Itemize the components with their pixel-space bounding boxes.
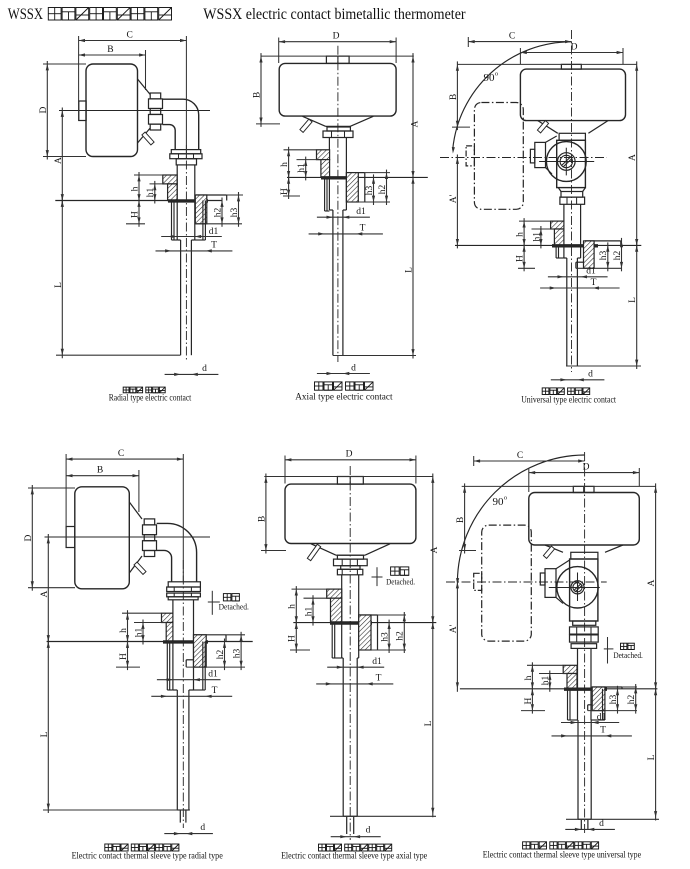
thermal sleeve tube [342, 658, 344, 816]
lower thread bushing (hatched) [592, 687, 605, 711]
union hex nut (top) [334, 559, 368, 566]
detach leader line [376, 567, 378, 586]
svg-text:H: H [288, 635, 298, 642]
svg-text:d: d [200, 823, 205, 833]
detachable union ring 2 (hex) [167, 587, 201, 592]
dimension D [520, 52, 623, 54]
dimension D [28, 487, 75, 489]
svg-text:h1: h1 [541, 676, 551, 686]
lower thread bushing (hatched) [346, 173, 358, 202]
svg-text:A: A [647, 579, 657, 586]
dimension h1 [297, 159, 321, 161]
dial bottom cone right [365, 544, 390, 555]
adjusting pin [300, 119, 312, 132]
dial phantom rotated (dash-dot) [474, 103, 523, 210]
dimension A [655, 483, 657, 691]
dimension B [464, 483, 466, 553]
dimension B [66, 475, 139, 477]
cone base line [336, 554, 365, 556]
label detach Chinese [223, 594, 231, 601]
caption Chinese: thermal sleeve universal type [523, 842, 530, 849]
outlet hex nut [323, 131, 353, 138]
dimension h1 [304, 597, 331, 599]
elbow pipe inner contour [163, 125, 176, 150]
upper thread bushing (hatched) [317, 150, 330, 160]
svg-text:h3: h3 [233, 649, 243, 659]
dimension h2 [403, 612, 405, 653]
svg-text:B: B [97, 466, 103, 476]
svg-text:Radial type electric contact: Radial type electric contact [109, 393, 192, 403]
svg-text:H: H [119, 653, 129, 660]
svg-text:Universal type electric contac: Universal type electric contact [521, 396, 616, 406]
dial body solid (diagram 3) [520, 69, 625, 121]
side bracket plate [545, 569, 556, 598]
dimension h2 [221, 198, 223, 227]
dimension h [122, 612, 162, 614]
extension h3 top [226, 634, 245, 636]
dimension h3 [388, 620, 390, 653]
dimension T [316, 683, 393, 685]
svg-text:d1: d1 [586, 267, 596, 277]
svg-text:H: H [280, 188, 290, 195]
dimension h2 [386, 170, 388, 205]
dimension T [151, 695, 232, 697]
dimension D [529, 472, 640, 474]
dimension T [540, 287, 620, 289]
svg-text:h3: h3 [230, 208, 240, 218]
dimension L [636, 242, 638, 369]
horizontal centerline through swivel [446, 581, 607, 583]
terminal tab on dial left [79, 101, 86, 121]
stem centerline [182, 560, 184, 828]
dial body (diagram 2) [279, 63, 396, 116]
dial bottom cone left [311, 544, 336, 555]
svg-text:d1: d1 [208, 670, 218, 680]
svg-text:D: D [333, 32, 340, 42]
svg-text:Detached.: Detached. [386, 578, 415, 587]
dimension h [284, 149, 317, 151]
dimension C [79, 40, 187, 42]
mounting surface thick segment [564, 687, 607, 690]
dimension h3 [240, 632, 242, 670]
dimension h3 [373, 174, 375, 205]
caption Chinese: axial type electric contact [315, 382, 324, 390]
dimension L [412, 174, 414, 358]
90-degree swing arc [453, 42, 572, 150]
elbow pipe outer contour [163, 99, 199, 149]
swivel cross tick vertical [577, 573, 579, 602]
top tab on dial [573, 486, 594, 492]
svg-text:T: T [360, 224, 366, 234]
lower thread bushing cap [347, 172, 364, 174]
elbow flange lower disc [170, 154, 202, 159]
stem upper tube [563, 204, 565, 258]
extension h2 top [378, 614, 407, 616]
thread shank below mounting [324, 177, 326, 211]
union hex nut (bottom) [337, 569, 362, 575]
svg-text:Electric contact thermal sleev: Electric contact thermal sleeve type axi… [281, 852, 427, 862]
outlet neck [327, 127, 350, 131]
svg-text:D: D [571, 43, 578, 53]
lower bushing step notch [576, 261, 584, 263]
side bracket plate [535, 142, 546, 167]
svg-text:h1: h1 [532, 232, 542, 242]
dimension H [138, 198, 140, 227]
dimension h2 [635, 684, 637, 714]
svg-text:T: T [211, 241, 217, 251]
swivel housing block [557, 140, 586, 187]
mounting surface line [293, 622, 436, 624]
svg-text:d: d [588, 370, 593, 380]
svg-text:Axial type electric contact: Axial type electric contact [295, 392, 393, 402]
svg-text:D: D [39, 106, 49, 113]
svg-text:B: B [252, 92, 262, 98]
svg-text:T: T [600, 725, 606, 735]
svg-text:C: C [127, 30, 133, 40]
dial body (diagram 5) [285, 484, 416, 543]
label detach Chinese [621, 643, 627, 649]
stem lower tube [566, 258, 568, 366]
svg-text:A: A [430, 546, 440, 553]
svg-text:L: L [647, 754, 657, 760]
upper thread bushing (hatched) [551, 221, 564, 229]
svg-text:Detached.: Detached. [219, 603, 249, 612]
extension line left for C and B [65, 454, 67, 547]
svg-text:C: C [509, 31, 515, 41]
dimension B [456, 61, 458, 130]
upper thread bushing (hatched) [163, 175, 177, 184]
svg-text:A: A [628, 154, 638, 161]
mounting surface line [287, 176, 428, 178]
union hex nut 2 [570, 635, 599, 642]
phantom tab left [474, 573, 482, 590]
inner stem poking below sleeve [580, 819, 582, 829]
dimension h3 [238, 192, 240, 227]
caption Chinese: thermal sleeve radial type [105, 844, 112, 851]
lower bushing bottom line [186, 666, 245, 668]
thermal sleeve tube [176, 690, 178, 810]
dimension h [527, 664, 563, 666]
caption Chinese: radial type electric contact [123, 387, 129, 393]
svg-text:H: H [524, 697, 534, 704]
svg-text:d: d [202, 364, 207, 374]
dimension A [61, 108, 63, 204]
svg-text:B: B [257, 516, 267, 522]
svg-text:T: T [591, 278, 597, 288]
lower thread bushing cap [196, 194, 227, 196]
dimension D [43, 63, 86, 65]
lower thread bushing (hatched) [359, 615, 371, 650]
dimension d [565, 828, 615, 830]
stem upper tube [341, 575, 343, 658]
svg-text:B: B [456, 517, 466, 523]
svg-text:B: B [107, 45, 113, 55]
svg-text:h2: h2 [216, 650, 226, 660]
caption Chinese: thermal sleeve axial type [319, 844, 326, 851]
inner stem poking below sleeve [346, 816, 348, 834]
block bottom chamfers [558, 188, 561, 192]
svg-text:h2: h2 [213, 208, 223, 218]
dimension A [636, 61, 638, 248]
lower thread bushing cap [359, 614, 378, 616]
swivel ball outer circle [546, 142, 586, 182]
thread shank below mounting [555, 245, 557, 258]
svg-text:Electric contact thermal sleev: Electric contact thermal sleeve type rad… [72, 852, 223, 862]
dial bottom cone right [588, 121, 608, 134]
lower hex nut [560, 197, 585, 204]
mounting surface line [455, 244, 641, 246]
top tab on dial [337, 477, 363, 485]
stem upper tube [172, 600, 174, 690]
svg-text:d1: d1 [597, 712, 607, 722]
svg-text:A': A' [449, 624, 459, 633]
top extension line [457, 63, 636, 65]
lower bushing step [186, 659, 193, 661]
terminal tab on dial left [66, 527, 75, 548]
thermal sleeve tube [577, 720, 579, 819]
lower thread bushing cap [585, 240, 621, 242]
sleeve bottom extension line [43, 809, 190, 811]
svg-text:d: d [599, 819, 604, 829]
bezel slant top [138, 79, 151, 95]
svg-text:h2: h2 [396, 631, 406, 641]
svg-text:WSSX electric contact bimetall: WSSX electric contact bimetallic thermom… [203, 6, 466, 23]
svg-text:h: h [524, 675, 534, 680]
bracket-to-block connector [546, 136, 557, 142]
dimension h3 [607, 242, 609, 271]
svg-text:90: 90 [493, 496, 505, 508]
union hex nut 1 [570, 627, 599, 634]
dimension d [551, 379, 605, 381]
svg-text:L: L [54, 282, 64, 288]
dimension A-prime [456, 579, 458, 692]
swivel housing block [570, 559, 598, 621]
dimension B [79, 54, 146, 56]
dial horizontal centerline [59, 110, 210, 112]
detach leader line [607, 637, 609, 664]
bracket-to-block connector [556, 560, 570, 569]
dimension d1 [327, 666, 384, 668]
svg-text:D: D [24, 534, 34, 541]
dial body (diagram 1) [86, 64, 138, 157]
dimension d [331, 836, 381, 838]
adjusting pin [142, 132, 154, 145]
dimension h2 [621, 238, 623, 271]
upper thread bushing (hatched) [563, 665, 577, 673]
svg-text:T: T [376, 674, 382, 684]
thread shank below mounting [166, 642, 168, 691]
svg-text:H: H [516, 255, 526, 262]
vertical centerline [571, 30, 573, 372]
dimension h1 [539, 673, 567, 675]
dimension h3 [617, 686, 619, 714]
extension h2 top [365, 172, 390, 174]
dimension d [164, 833, 213, 835]
svg-text:h2: h2 [378, 185, 388, 195]
dimension d1 [561, 722, 619, 724]
phantom tab left [466, 146, 474, 166]
svg-text:h3: h3 [599, 251, 609, 261]
upper thread bushing (hatched) [162, 613, 173, 622]
dimension H [288, 174, 290, 199]
svg-text:h3: h3 [609, 695, 619, 705]
dimension A [412, 53, 414, 180]
svg-text:B: B [449, 94, 459, 100]
dimension L [61, 198, 63, 359]
mounting surface thick segment [168, 199, 208, 202]
dimension L [655, 686, 657, 821]
extension line from C down to elbow [182, 454, 184, 581]
svg-text:d: d [351, 363, 356, 373]
adjusting pin [537, 121, 548, 133]
lower bushing bottom line [588, 710, 637, 712]
extension h2 top [622, 686, 637, 688]
detachable union ring 1 [168, 582, 200, 587]
lower thread bushing cap [194, 634, 227, 636]
swivel inner circle [558, 153, 576, 171]
adjusting pin [307, 544, 320, 560]
svg-text:L: L [628, 297, 638, 303]
mounting surface thick segment [552, 244, 598, 247]
svg-text:L: L [40, 731, 50, 737]
svg-text:A: A [411, 120, 421, 127]
bezel slant top [129, 502, 142, 519]
dimension h2 [224, 639, 226, 671]
elbow pipe outer contour [157, 523, 197, 581]
union top plate [337, 555, 363, 559]
svg-text:C: C [118, 449, 124, 459]
stem bottom extension line [566, 365, 641, 367]
mounting surface thick segment [321, 176, 357, 179]
mounting surface thick segment [330, 621, 372, 624]
svg-text:A: A [54, 157, 64, 164]
dimension d1 [317, 216, 370, 218]
svg-text:Electric contact thermal sleev: Electric contact thermal sleeve type uni… [483, 851, 641, 861]
swivel inner circle [571, 581, 584, 594]
dimension d1 [548, 276, 608, 278]
extension line h3 top [227, 194, 243, 196]
upper thread bushing (hatched) [327, 589, 342, 598]
thread shank below mounting [171, 201, 173, 241]
dimension C [468, 41, 571, 43]
dimension h1 [134, 622, 166, 624]
swivel screw slot hatch [562, 157, 571, 166]
svg-text:T: T [212, 686, 218, 696]
mounting surface line [460, 688, 658, 690]
svg-text:o: o [504, 495, 507, 502]
lower bushing bottom line [195, 223, 242, 225]
sleeve bottom extension line [566, 818, 659, 820]
svg-text:h2: h2 [613, 251, 623, 261]
bezel slant bottom [129, 556, 142, 573]
svg-text:90: 90 [484, 72, 496, 84]
dimension D [284, 456, 286, 484]
vertical centerline [349, 466, 351, 840]
svg-text:C: C [517, 451, 523, 461]
stem lower tube [180, 240, 182, 355]
dimension H [127, 639, 129, 671]
mounting surface line [47, 641, 253, 643]
lower thread bushing (hatched) [584, 241, 595, 268]
swivel cross tick horizontal [539, 161, 594, 163]
dimension h [292, 588, 327, 590]
union nut at dial outlet [150, 93, 161, 99]
swivel cross tick vertical [565, 148, 567, 176]
sleeve bottom extension line [330, 815, 436, 817]
dimension L [47, 639, 49, 814]
mounting surface thick segment [163, 640, 208, 643]
detachable union ring 4 [168, 597, 198, 600]
extension line right of B [145, 50, 147, 90]
svg-text:h1: h1 [297, 163, 307, 173]
stem lower tube [332, 210, 334, 356]
lower thread bushing (hatched) [194, 635, 207, 667]
svg-text:H: H [130, 211, 140, 218]
top extension line [462, 485, 656, 487]
svg-text:d1: d1 [209, 227, 219, 237]
dimension B [260, 53, 262, 127]
stem bottom extension line [333, 355, 416, 357]
dial horizontal centerline [45, 536, 211, 538]
svg-text:h1: h1 [146, 188, 156, 198]
svg-text:L: L [424, 720, 434, 726]
stem upper tube [577, 648, 579, 720]
lower bushing step notch [588, 704, 593, 706]
caption Chinese: universal type electric contact [542, 388, 549, 395]
svg-text:h: h [119, 628, 129, 633]
mounting surface line [55, 200, 222, 202]
dimension H [523, 242, 525, 271]
dimension h [134, 174, 163, 176]
svg-text:h3: h3 [381, 632, 391, 642]
svg-text:h: h [516, 232, 526, 237]
dimension L [432, 620, 434, 818]
adjusting pin [543, 546, 554, 558]
svg-text:o: o [495, 71, 498, 78]
svg-text:h3: h3 [365, 186, 375, 196]
dimension A-prime [456, 155, 458, 249]
side bracket tab [530, 149, 534, 163]
lower thread bushing (hatched) [195, 195, 207, 224]
svg-text:Detached.: Detached. [613, 651, 643, 660]
extension line right of B [138, 470, 140, 512]
dimension B [265, 474, 267, 554]
dimension C [474, 460, 585, 462]
side bracket tab [540, 573, 545, 585]
dimension T [552, 735, 632, 737]
lower bushing bottom line [359, 649, 406, 651]
svg-text:D: D [346, 450, 353, 460]
stem centerline [185, 145, 187, 361]
detachable union ring 3 (hex) [167, 593, 201, 597]
neck below dial [571, 552, 598, 559]
thread shank below mounting [567, 689, 569, 720]
dimension D [278, 38, 280, 64]
dimension h1 [532, 228, 555, 230]
dimension A [47, 534, 49, 645]
dimension h [519, 220, 551, 222]
svg-text:WSSX: WSSX [8, 6, 44, 23]
svg-text:h: h [288, 604, 298, 609]
dial bottom cone left [303, 116, 326, 126]
adjusting pin [134, 562, 146, 574]
dial bottom cone right [605, 545, 623, 552]
stem bottom extension line [56, 354, 181, 356]
svg-text:d1: d1 [372, 657, 382, 667]
dimension d [165, 373, 219, 375]
dimension H [295, 620, 297, 653]
bezel slant bottom [138, 128, 151, 143]
